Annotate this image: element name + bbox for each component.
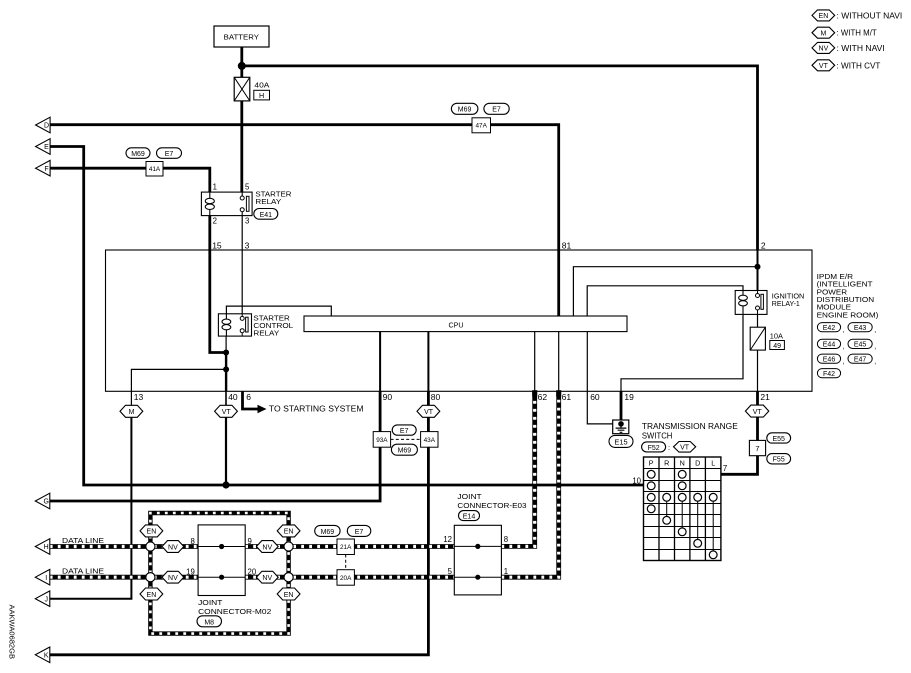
svg-text:RELAY-1: RELAY-1 — [772, 299, 800, 308]
svg-text:M69: M69 — [131, 151, 145, 158]
wire M tag to net J arrow — [50, 417, 132, 599]
svg-text:TO STARTING SYSTEM: TO STARTING SYSTEM — [269, 403, 364, 413]
svg-text:R: R — [664, 459, 669, 468]
wire VT tag to junction on net E — [225, 417, 227, 486]
joint connector M02 box — [198, 525, 245, 596]
fuse 47A — [472, 118, 491, 133]
option tag EN hexagon bottom left — [140, 588, 163, 600]
svg-text:H: H — [44, 544, 49, 551]
svg-text:NV: NV — [262, 544, 272, 551]
connector ref M69 oval above fuse 41A — [126, 148, 150, 159]
wire E03 pin 8 up to IPDM pin 62 — [501, 391, 534, 546]
svg-text:7: 7 — [755, 444, 759, 453]
transmission range switch title — [642, 421, 738, 440]
svg-text:DATA LINE: DATA LINE — [62, 567, 104, 576]
arrow to starting system — [258, 403, 364, 413]
connector ref E7 oval above fuse 21A — [347, 525, 371, 536]
svg-text:M: M — [820, 30, 826, 37]
wire M02 pin 20 through fuse 20A to E03 pin 5 — [245, 575, 454, 580]
wire data line net H to joint connector M02 pin 8 — [50, 544, 198, 549]
svg-text:E44: E44 — [823, 342, 836, 349]
svg-text:61: 61 — [562, 392, 572, 402]
svg-text:5: 5 — [448, 567, 453, 576]
svg-text:E43: E43 — [854, 325, 867, 332]
svg-text:SWITCH: SWITCH — [642, 431, 673, 441]
wire pin 2 junction to CPU — [573, 267, 757, 316]
M02 pin labels 8 9 19 20 — [186, 537, 257, 577]
svg-text:I: I — [45, 575, 47, 582]
connector ref F52 oval — [642, 442, 666, 452]
wire pin 40 to VT tag — [225, 391, 227, 406]
svg-text:2: 2 — [213, 217, 217, 226]
svg-text:8: 8 — [504, 535, 508, 544]
svg-text:,: , — [874, 344, 876, 351]
option tag NV hexagon H left — [162, 541, 184, 553]
connector arrow H — [35, 539, 50, 555]
connector ref E41 oval — [254, 209, 278, 220]
wire CPU to IPDM pin 90 — [379, 332, 381, 392]
svg-text:N: N — [680, 459, 685, 468]
svg-text:JOINT: JOINT — [457, 492, 482, 501]
wire battery feed to IPDM pin 2 — [242, 66, 758, 250]
svg-text:13: 13 — [134, 392, 144, 402]
wire pin 60 to ground E15 — [587, 391, 620, 424]
wire pin 19 to ground E15 — [620, 391, 623, 422]
wire M02 pin 9 through fuse 21A to E03 pin 12 — [245, 544, 454, 549]
IPDM top pin labels 15 3 81 2 — [212, 241, 766, 251]
wire battery to junction — [240, 47, 243, 66]
svg-text:15: 15 — [212, 241, 222, 251]
wire starter control relay coil bottom to junction — [225, 336, 227, 352]
svg-text:12: 12 — [443, 535, 452, 544]
svg-text:3: 3 — [245, 217, 249, 226]
svg-text:NV: NV — [168, 544, 178, 551]
wire net D to fuse 47A to IPDM pin 81 — [50, 125, 559, 250]
svg-text:43A: 43A — [424, 437, 436, 444]
svg-text:M: M — [129, 409, 135, 416]
svg-text::: : — [668, 443, 670, 452]
connector arrow G — [35, 493, 50, 509]
starter relay pin labels 1 5 2 3 — [213, 183, 250, 226]
wire IPDM pin 81 to CPU — [557, 250, 560, 316]
svg-text:G: G — [43, 499, 48, 506]
svg-text:F: F — [44, 166, 48, 173]
svg-text:60: 60 — [590, 392, 600, 402]
svg-text:3: 3 — [245, 241, 250, 251]
svg-text:VT: VT — [222, 409, 232, 416]
wire junction to IPDM pin 40 — [225, 369, 227, 391]
wire IPDM pin 3 to starter control relay contact — [241, 250, 243, 317]
svg-text:H: H — [259, 91, 264, 100]
ground E15 — [609, 420, 633, 447]
svg-text:40A: 40A — [254, 83, 269, 90]
svg-text:EN: EN — [284, 592, 294, 599]
wire net E down and across to TRS pin 10 — [50, 147, 643, 486]
junction dot pin 40 net — [223, 366, 229, 372]
svg-text:,: , — [843, 344, 845, 351]
option tag M hexagon below pin 13 — [120, 405, 143, 417]
connector ref E7 oval above fuse link — [392, 425, 416, 435]
connector ref E45 oval — [848, 339, 876, 350]
svg-text:J: J — [44, 596, 48, 603]
svg-text:L: L — [711, 459, 715, 468]
svg-text:ENGINE ROOM): ENGINE ROOM) — [817, 310, 879, 319]
svg-text:: WITH NAVI: : WITH NAVI — [837, 43, 885, 53]
svg-text:CPU: CPU — [449, 320, 464, 329]
IPDM E/R box — [106, 250, 813, 391]
fuse 43A — [421, 432, 438, 448]
svg-text:,: , — [874, 327, 876, 334]
svg-text:,: , — [843, 327, 845, 334]
DASHED-DATA-LINES — [50, 391, 559, 633]
svg-text:21A: 21A — [340, 544, 352, 551]
option tag EN hexagon top left — [140, 525, 163, 537]
svg-text:EN: EN — [147, 529, 157, 536]
ignition relay-1 — [735, 291, 804, 315]
connector ref E14 oval — [459, 511, 480, 521]
joint connector E03 name — [457, 492, 526, 510]
svg-text:E46: E46 — [823, 357, 836, 364]
joint connector E03 box — [454, 525, 501, 595]
svg-text:AAKWA0682GB: AAKWA0682GB — [8, 605, 17, 660]
svg-text:VT: VT — [753, 409, 763, 416]
svg-text:F55: F55 — [773, 457, 785, 464]
connector ref M8 oval — [197, 616, 222, 627]
svg-text:F52: F52 — [648, 445, 660, 452]
wire CPU to IPDM pin 80 — [427, 332, 429, 392]
svg-text:E55: E55 — [772, 436, 785, 443]
svg-text:1: 1 — [504, 567, 508, 576]
svg-text:DATA LINE: DATA LINE — [62, 536, 104, 545]
junction dot battery feed — [238, 62, 246, 70]
connector ref E46 oval — [817, 354, 844, 365]
svg-text:1: 1 — [213, 183, 217, 192]
option tag NV hexagon I left — [162, 571, 184, 583]
svg-text:90: 90 — [383, 392, 393, 402]
wire CPU to IPDM pin 60 — [586, 332, 588, 392]
connector arrow D — [36, 117, 51, 133]
svg-text:: WITHOUT NAVI: : WITHOUT NAVI — [837, 10, 903, 20]
connector arrow E — [36, 139, 51, 155]
junction dot net E and pin 40 — [222, 481, 229, 488]
svg-text:49: 49 — [773, 343, 781, 350]
connector ref M69 oval below fuse link — [391, 444, 417, 455]
loop junction circle I right — [284, 573, 293, 582]
svg-text:EN: EN — [147, 592, 157, 599]
connector ref E47 oval — [848, 354, 876, 365]
svg-text:P: P — [649, 459, 654, 468]
svg-text:20A: 20A — [340, 575, 352, 582]
svg-text:E7: E7 — [492, 107, 501, 114]
wire junction to IPDM pin 13 — [131, 369, 226, 391]
wire pin 6 to starting system arrow — [243, 391, 259, 409]
svg-text:CONNECTOR-M02: CONNECTOR-M02 — [198, 607, 271, 616]
fuse 20A — [337, 570, 354, 586]
svg-text:47A: 47A — [476, 123, 488, 130]
connector ref E55 oval — [767, 433, 791, 443]
connector ref F42 oval — [817, 369, 840, 378]
IPDM E/R name text block — [817, 272, 879, 320]
TRS contact connector lines — [667, 497, 714, 555]
terminal marker IPDM pin 61 — [556, 390, 561, 397]
wire pin 90 through fuse 93A to net G arrow — [50, 391, 380, 501]
svg-text:,: , — [843, 358, 845, 365]
loop junction circle I left — [146, 573, 155, 582]
svg-text:: WITH M/T: : WITH M/T — [837, 28, 878, 38]
svg-text:,: , — [874, 358, 876, 365]
wire EN option loop around joint connector M02 — [150, 513, 288, 634]
connector arrow J — [35, 591, 50, 607]
fuse link dashed between 21A and 20A — [345, 555, 347, 570]
svg-text:41A: 41A — [149, 166, 161, 173]
svg-text:19: 19 — [624, 392, 634, 402]
svg-text:2: 2 — [761, 241, 766, 251]
option tag NV hexagon H right — [256, 541, 278, 553]
svg-text:9: 9 — [248, 537, 252, 546]
option tag VT hexagon after F52 — [668, 442, 696, 453]
connector ref E42 oval — [817, 323, 844, 334]
svg-text:EN: EN — [284, 529, 294, 536]
TRS column headers P R N D L — [649, 459, 715, 468]
svg-text:19: 19 — [186, 568, 195, 577]
svg-text:EN: EN — [819, 13, 829, 20]
svg-text:VT: VT — [819, 63, 829, 70]
svg-text:21: 21 — [760, 392, 770, 402]
connector ref M69 oval above fuse 47A — [451, 103, 478, 114]
svg-text:10: 10 — [632, 476, 641, 485]
joint connector M02 name — [198, 598, 271, 616]
fusible link 40A H — [234, 77, 270, 101]
wire ignition relay contact through fuse 10A to IPDM pin 21 — [757, 308, 759, 391]
svg-text:NV: NV — [262, 575, 272, 582]
fuse 93A — [373, 432, 390, 448]
connector ref E44 oval — [817, 339, 844, 350]
loop junction circle H right — [284, 542, 293, 551]
wire E03 pin 1 up to IPDM pin 61 — [501, 391, 558, 577]
wire starter relay pin 3 to IPDM pin 3 — [241, 216, 243, 250]
connector ref E7 oval above fuse 47A — [484, 103, 509, 114]
svg-text:M69: M69 — [458, 107, 472, 114]
svg-text:E41: E41 — [260, 212, 273, 219]
wire net F through fuse 41A to starter relay pin 1 — [50, 168, 210, 193]
wire junction down to second junction — [225, 353, 227, 370]
wire CPU to ignition relay coil — [587, 286, 743, 316]
starter control relay — [218, 313, 293, 337]
TRS contact circles — [647, 470, 717, 558]
svg-text:6: 6 — [246, 392, 251, 402]
fuse 21A — [337, 539, 354, 555]
junction dot pin 15 net — [223, 350, 229, 356]
option tag VT hexagon below pin 40 — [215, 405, 238, 417]
svg-text:E14: E14 — [463, 514, 476, 521]
svg-text:5: 5 — [245, 183, 250, 192]
connector arrow I — [35, 569, 50, 585]
loop junction circle H left — [146, 542, 155, 551]
IPDM bottom pin labels — [134, 392, 770, 402]
connector arrow F — [36, 160, 51, 176]
connector arrow K — [35, 647, 50, 663]
wire pin 13 to M tag — [130, 391, 132, 406]
svg-text:D: D — [44, 123, 49, 130]
legend option tag M — [812, 27, 877, 38]
battery — [214, 26, 269, 47]
svg-text:62: 62 — [538, 392, 548, 402]
svg-text:E42: E42 — [823, 325, 836, 332]
wire CPU to IPDM pin 62 — [534, 332, 536, 392]
CPU box — [304, 316, 627, 332]
junction dot pin 2 net — [755, 264, 761, 270]
legend option tag VT — [812, 60, 881, 71]
TRS contact grid — [644, 457, 721, 561]
svg-text:E7: E7 — [400, 428, 409, 435]
svg-text:M69: M69 — [321, 529, 335, 536]
wire data line net I to joint connector M02 pin 19 — [50, 575, 198, 580]
wire starter control relay coil top to CPU — [226, 306, 331, 316]
fuse 41A — [146, 162, 163, 177]
svg-text:81: 81 — [562, 241, 572, 251]
connector ref E43 oval — [848, 323, 876, 334]
svg-text:E45: E45 — [854, 342, 867, 349]
connector ref E7 oval above fuse 41A — [157, 148, 182, 159]
legend option tag NV — [812, 42, 885, 53]
starter relay E41 — [201, 190, 291, 216]
connector ref M69 oval above fuse 21A — [315, 525, 340, 536]
svg-text:80: 80 — [431, 392, 441, 402]
svg-text:F42: F42 — [823, 371, 835, 378]
option tag VT hexagon below pin 21 — [745, 405, 768, 417]
svg-text:RELAY: RELAY — [255, 197, 281, 206]
wire pin 21 through VT tag and link box 7 to TRS pin 7 — [721, 391, 758, 474]
wire IPDM pin 2 to ignition relay contact — [757, 250, 759, 296]
wire IPDM pin 15 to junction — [210, 250, 226, 353]
wire battery junction to fusible link and starter relay pin 5 — [240, 66, 243, 193]
svg-text:BATTERY: BATTERY — [224, 33, 259, 42]
svg-text:VT: VT — [424, 409, 434, 416]
svg-text:K: K — [44, 653, 49, 660]
option tag NV hexagon I right — [256, 571, 278, 583]
svg-text:NV: NV — [168, 575, 178, 582]
terminal marker IPDM pin 62 — [532, 390, 537, 397]
svg-text:: WITH CVT: : WITH CVT — [837, 60, 882, 70]
connector ref F55 oval — [767, 454, 791, 464]
svg-text:93A: 93A — [376, 437, 388, 444]
svg-text:E47: E47 — [854, 357, 867, 364]
wire CPU to IPDM pin 61 — [558, 332, 560, 392]
link box 7 — [749, 440, 765, 455]
WIRES-LAYER — [50, 47, 758, 655]
svg-text:7: 7 — [723, 464, 727, 473]
svg-text:NV: NV — [819, 46, 829, 53]
svg-text:20: 20 — [248, 568, 257, 577]
option tag VT hexagon below pin 80 — [417, 405, 440, 417]
wire starter relay pin 2 to IPDM pin 15 — [208, 216, 211, 250]
svg-text:E: E — [44, 144, 49, 151]
svg-text:M69: M69 — [398, 448, 412, 455]
svg-text:M8: M8 — [204, 619, 214, 626]
legend option tag EN — [812, 10, 902, 21]
fuse link dashed between 93A and 43A — [391, 438, 421, 440]
wire ignition relay coil to IPDM pin 19 — [621, 314, 743, 391]
svg-text:E7: E7 — [165, 151, 174, 158]
option tag EN hexagon bottom right — [277, 588, 300, 600]
svg-text:10A: 10A — [770, 332, 783, 341]
option tag EN hexagon top right — [277, 525, 300, 537]
svg-text:E15: E15 — [614, 438, 627, 447]
svg-text:E7: E7 — [355, 529, 364, 536]
svg-text:CONNECTOR-E03: CONNECTOR-E03 — [457, 501, 526, 510]
svg-text:8: 8 — [190, 537, 194, 546]
svg-text:40: 40 — [228, 392, 238, 402]
svg-text:JOINT: JOINT — [198, 598, 223, 607]
wire pin 80 through VT tag and fuse 43A to net K arrow — [50, 391, 429, 655]
svg-text:D: D — [695, 459, 700, 468]
svg-text:VT: VT — [680, 445, 690, 452]
E03 pin labels 12 8 5 1 — [443, 535, 508, 576]
fuse 10A 49 — [750, 327, 784, 350]
svg-text:RELAY: RELAY — [253, 328, 279, 337]
